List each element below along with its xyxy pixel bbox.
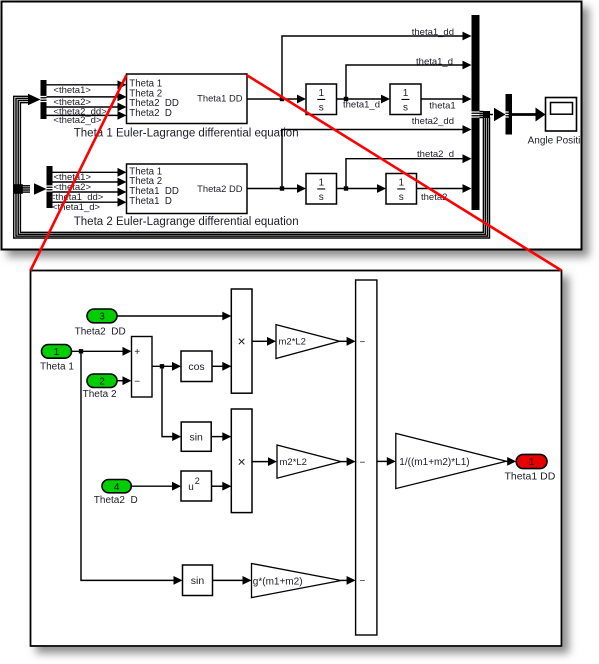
svg-text:cos: cos	[188, 361, 204, 373]
wire selector1 to Theta1 port 3	[47, 103, 127, 112]
svg-text:Theta2 DD: Theta2 DD	[197, 183, 243, 194]
svg-text:×: ×	[238, 454, 246, 470]
svg-text:s: s	[319, 192, 324, 203]
wire gain4 to outport	[506, 457, 516, 466]
sum block	[132, 337, 153, 398]
mux output stub wires	[480, 112, 484, 118]
svg-text:4: 4	[114, 482, 120, 493]
mux bar	[472, 15, 480, 210]
gain m2*L2 (1)	[276, 325, 340, 359]
svg-text:Theta2 DD: Theta2 DD	[75, 327, 126, 338]
svg-text:u: u	[188, 482, 194, 493]
svg-text:<theta1>: <theta1>	[53, 85, 91, 96]
feedback bus wire 3	[16, 98, 488, 236]
svg-text:2: 2	[99, 376, 105, 387]
wire inport2 to sum	[117, 376, 132, 385]
bus selector bar 1	[41, 80, 47, 119]
svg-text:Theta 2: Theta 2	[83, 389, 117, 400]
wire selector1 to Theta1 port 4	[47, 111, 127, 120]
svg-text:Theta1 DD: Theta1 DD	[505, 471, 556, 483]
inport 4	[102, 480, 131, 493]
subsystem block Theta 1 Euler-Lagrange	[127, 74, 248, 124]
wire u2 to product2	[212, 482, 232, 491]
svg-text:1: 1	[403, 88, 409, 99]
svg-text:1: 1	[318, 88, 324, 99]
wire product2 to gain m2*L2 (2)	[252, 457, 277, 466]
wire big sum to gain 1/((m1+m2)*L1)	[377, 457, 396, 466]
svg-text:theta2_d: theta2_d	[417, 149, 454, 160]
svg-text:Theta1 D: Theta1 D	[129, 196, 172, 207]
wire mux to signal bar	[490, 108, 506, 122]
gain g*(m1+m2)	[252, 564, 342, 598]
bus selector bar 2	[47, 166, 53, 208]
svg-text:g*(m1+m2): g*(m1+m2)	[253, 576, 303, 587]
wire inport1 to sum	[72, 347, 132, 356]
svg-text:×: ×	[238, 333, 246, 349]
svg-text:theta2_dd: theta2_dd	[412, 116, 454, 127]
svg-text:s: s	[403, 102, 408, 113]
wire inport1 branch down to sin2	[81, 351, 183, 585]
svg-text:1: 1	[398, 178, 404, 189]
junction theta1_d branch	[344, 97, 348, 101]
svg-text:1: 1	[318, 178, 324, 189]
bus arrow into selector 1	[28, 94, 41, 106]
svg-text:Theta1 DD: Theta1 DD	[197, 93, 243, 104]
svg-text:2: 2	[195, 476, 200, 486]
product block 2	[231, 409, 252, 513]
wire product1 to gain m2*L2 (1)	[252, 337, 276, 346]
wire Theta1 DD output to integrator 1a	[247, 95, 306, 104]
bus branch junction to selector 2	[13, 184, 30, 194]
junction theta2_d branch	[344, 186, 348, 190]
outport 1 Theta1 DD	[516, 454, 547, 468]
svg-text:<theta2_d>: <theta2_d>	[53, 115, 102, 126]
svg-text:Theta 1 Euler-Lagrange differe: Theta 1 Euler-Lagrange differential equa…	[74, 127, 299, 139]
bottom detail panel frame	[31, 271, 562, 647]
big sum bar block	[356, 280, 377, 635]
svg-text:3: 3	[99, 312, 105, 323]
junction theta2_dd branch	[280, 186, 284, 190]
svg-text:Theta2 D: Theta2 D	[129, 108, 172, 119]
junction theta1_dd branch	[280, 97, 284, 101]
wire selector1 to Theta1 port 2	[47, 93, 127, 102]
svg-text:−: −	[360, 457, 366, 468]
wire Theta2 DD output to integrator 2a	[247, 184, 306, 193]
wire integrator 1b to mux theta1	[421, 95, 472, 104]
wire selector1 to Theta1 port 1	[47, 80, 127, 89]
cos block	[181, 351, 212, 382]
wire sin2 to gain g*(m1+m2)	[213, 576, 252, 585]
wire sum to cos	[152, 362, 181, 371]
feedback bus wire 2	[18, 101, 485, 235]
sin block (middle)	[181, 422, 211, 451]
svg-text:1: 1	[54, 347, 60, 358]
svg-text:theta1: theta1	[429, 100, 455, 111]
wire sin1 to product2	[211, 432, 231, 441]
inport 2	[87, 374, 117, 388]
wire sum branch down to sin1	[162, 366, 181, 441]
svg-text:s: s	[319, 102, 324, 113]
svg-text:+: +	[134, 347, 140, 358]
svg-text:1: 1	[529, 457, 535, 468]
inport 3	[87, 309, 117, 323]
svg-text:−: −	[360, 337, 366, 348]
junction inport1 branch	[79, 349, 83, 353]
wire selector2 to Theta2 port 3	[53, 188, 127, 197]
sin block (bottom)	[183, 565, 213, 596]
integrator block 2a	[306, 174, 337, 205]
svg-text:m2*L2: m2*L2	[279, 337, 306, 348]
feedback bus wire 1 (outer)	[20, 103, 483, 233]
scope block Angle Position	[546, 98, 577, 132]
wire integrator 2a to 2b	[337, 184, 387, 193]
wire gain2 to big sum	[341, 457, 356, 466]
wire inport4 to u2	[131, 482, 181, 491]
wire selector2 to Theta2 port 1	[53, 168, 127, 177]
inport 1	[42, 345, 72, 359]
integrator block 2b	[386, 174, 417, 205]
junction sum output	[160, 364, 164, 368]
mux output junction block	[483, 111, 490, 118]
bus arrow into selector 2	[34, 183, 47, 195]
wire cos to product1	[212, 362, 231, 371]
wire gain1 to big sum	[340, 337, 356, 346]
svg-text:theta1_d: theta1_d	[416, 57, 453, 68]
subsystem block Theta 2 Euler-Lagrange	[127, 164, 248, 214]
wire selector2 to Theta2 port 4	[53, 198, 127, 207]
signal spec bar	[506, 94, 513, 135]
wire theta1_dd branch to mux	[282, 32, 472, 99]
wire integrator 2b to mux theta2	[417, 184, 472, 193]
svg-text:sin: sin	[191, 575, 205, 587]
wire theta1_d branch to mux	[346, 61, 472, 99]
wire selector2 to Theta2 port 2	[53, 178, 127, 187]
svg-text:1/((m1+m2)*L1): 1/((m1+m2)*L1)	[399, 457, 469, 468]
top model panel frame	[2, 2, 582, 250]
svg-text:sin: sin	[189, 431, 203, 443]
gain m2*L2 (2)	[277, 445, 341, 478]
feedback bus wire 4 (inner)	[14, 96, 490, 238]
wire gain3 to big sum	[341, 576, 355, 585]
wire to scope	[512, 108, 546, 122]
wire theta2_d branch to mux	[346, 154, 472, 188]
gain 1/((m1+m2)*L1)	[396, 433, 507, 488]
wire integrator 1a to 1b	[337, 95, 391, 104]
svg-text:Theta 2 Euler-Lagrange differe: Theta 2 Euler-Lagrange differential equa…	[74, 216, 299, 228]
svg-text:theta1_dd: theta1_dd	[412, 27, 454, 38]
svg-text:Theta 1: Theta 1	[40, 362, 74, 373]
svg-text:−: −	[134, 376, 140, 387]
red zoom callout line left	[31, 75, 127, 271]
red zoom callout line right	[247, 75, 562, 271]
integrator block 1a	[306, 84, 337, 115]
u squared block	[181, 471, 212, 501]
svg-text:m2*L2: m2*L2	[280, 457, 307, 468]
integrator block 1b	[390, 84, 421, 115]
wire inport3 to product1	[117, 312, 231, 321]
svg-text:theta1_d: theta1_d	[343, 100, 380, 111]
svg-text:s: s	[399, 192, 404, 203]
svg-text:Theta2 D: Theta2 D	[94, 495, 138, 506]
svg-text:−: −	[360, 576, 366, 587]
product block 1	[231, 289, 252, 393]
wire theta2_dd branch to mux	[282, 125, 472, 188]
